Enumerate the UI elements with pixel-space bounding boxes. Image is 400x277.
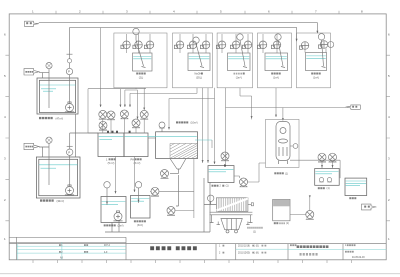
svg-text:PH: PH <box>131 158 135 161</box>
svg-text:(1m³): (1m³) <box>313 77 319 80</box>
svg-text:(2m³): (2m³) <box>118 225 124 228</box>
svg-text:(1): (1) <box>327 187 330 190</box>
svg-text:) (5): ) (5) <box>255 246 259 248</box>
svg-text:(47m³): (47m³) <box>56 116 64 120</box>
svg-text:(1m³): (1m³) <box>236 77 242 80</box>
svg-text:(10m³): (10m³) <box>191 122 198 125</box>
svg-text:(1): (1) <box>286 222 289 225</box>
svg-text:(1): (1) <box>285 172 288 175</box>
svg-text:2011/12/05(: 2011/12/05( <box>238 253 250 255</box>
svg-text:2011/11/18(: 2011/11/18( <box>238 246 250 248</box>
svg-text:P: P <box>68 70 70 74</box>
svg-text:(30m³): (30m³) <box>57 199 65 203</box>
svg-text:40-05-02-03: 40-05-02-03 <box>352 257 365 259</box>
svg-text:(1): (1) <box>253 230 256 233</box>
svg-text:(5 m³): (5 m³) <box>108 162 115 165</box>
svg-text:(3m³): (3m³) <box>137 224 143 227</box>
svg-text:(1m³): (1m³) <box>273 77 279 80</box>
svg-text:(1): (1) <box>226 185 229 188</box>
svg-text:) (8): ) (8) <box>255 253 259 255</box>
svg-text:(35L): (35L) <box>196 77 202 80</box>
svg-text:NaOH: NaOH <box>195 73 202 76</box>
svg-text:(2L): (2L) <box>139 77 144 80</box>
svg-text:P: P <box>68 150 70 154</box>
svg-text:497-2: 497-2 <box>104 245 111 247</box>
